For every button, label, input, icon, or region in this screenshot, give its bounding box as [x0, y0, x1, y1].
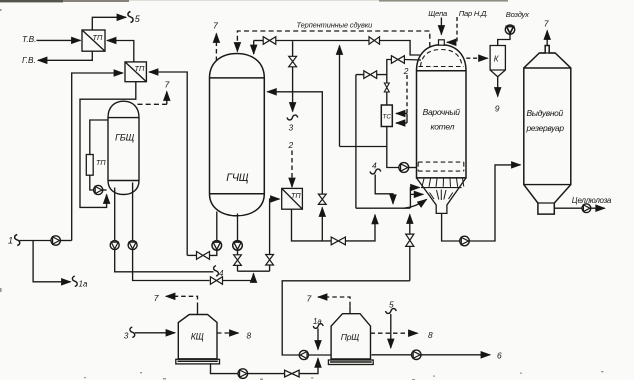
wire arrow up into valve VC1 [321, 208, 323, 241]
wire valve V4 to junction J arrow [223, 273, 254, 280]
dashed sensing line node 2 [396, 66, 409, 123]
wire node 3 drop with valve [287, 41, 298, 132]
svg-text:ТП: ТП [291, 191, 301, 200]
blow tank vessel [524, 46, 571, 215]
compressor [505, 25, 514, 34]
svg-text:1а: 1а [79, 280, 88, 289]
pump P2 [128, 241, 137, 250]
wire blow tank vent to node 7 [544, 19, 550, 46]
wire cyclone outlet to node 9 [495, 77, 500, 114]
big loop wire riser to PrSh leg [282, 281, 410, 355]
wire blow line boiler to blow tank [442, 213, 460, 241]
heater TP3 [86, 155, 106, 176]
wire TP4 bottom line [292, 209, 332, 241]
svg-text:ТП: ТП [93, 33, 104, 42]
wire GChSh outlet to pump P3 [216, 212, 218, 241]
svg-text:2: 2 [403, 66, 409, 76]
dashed wire GChSh dome to node 7 [213, 21, 219, 62]
dashed relief line to cyclone K [466, 57, 487, 59]
label Shchepa with arrow [428, 9, 447, 35]
tank PrSh [328, 306, 373, 364]
wire valve VK up into junction [299, 358, 318, 373]
boiler internal dashed screens [418, 50, 464, 172]
pump KSh [238, 369, 248, 379]
pump blow [460, 236, 470, 246]
wire pump KSh to valve VK [248, 373, 285, 375]
wire branch to node 1a [33, 241, 88, 289]
pump 6 [412, 350, 421, 359]
svg-text:ТС: ТС [383, 113, 392, 120]
svg-text:Т.В.: Т.В. [22, 34, 36, 44]
node 5 drop [386, 300, 397, 349]
svg-text:7: 7 [544, 19, 550, 29]
wire steam riser to header [355, 75, 357, 209]
pump P4 [233, 241, 243, 251]
dashed wire node 2 into TP4 [288, 140, 294, 187]
svg-text:2: 2 [288, 140, 294, 150]
node 3 input to KSh [124, 327, 175, 340]
wire pulp outlet [554, 196, 612, 213]
valve VK [285, 370, 300, 377]
wire PrSh outlet to node 6 [372, 354, 412, 356]
node 1a arrow into junction [313, 317, 323, 350]
wire pump GB to vessel bottom [103, 189, 107, 191]
heat exchanger TP2 [125, 62, 146, 82]
wire pump to boiler [409, 167, 417, 169]
wire steam branch with valve to TC line [356, 71, 387, 79]
svg-text:ПрЩ: ПрЩ [341, 332, 359, 342]
svg-text:ГЧЩ: ГЧЩ [226, 172, 248, 184]
svg-text:7: 7 [213, 21, 219, 31]
svg-text:3: 3 [124, 330, 129, 340]
wire riser from loop with valve VR [406, 215, 414, 281]
pump circulation [399, 163, 409, 173]
pump GB [94, 185, 103, 194]
heat exchanger TP4 [282, 188, 303, 209]
boiler vessel Varochny kotel [417, 45, 467, 178]
wire TP3 to pump GB [90, 175, 94, 190]
arrow into cyclone [484, 57, 488, 59]
wire tie line to TC drop [340, 146, 387, 148]
wire blow to tank left [469, 165, 520, 241]
pump P1 [110, 241, 119, 250]
wire valve VC2 to riser into header [345, 215, 375, 241]
wire GChSh right side feed [267, 92, 322, 194]
wire compressor to cyclone top [498, 34, 510, 45]
wire TC to circulation pump [387, 127, 399, 168]
wire P3 riser into TP2 right [149, 72, 187, 255]
wire header curve into cone [404, 199, 427, 208]
solid blowoff header [254, 41, 420, 56]
node 1 input [8, 235, 51, 246]
dashed steam line Par N.D. [447, 9, 488, 42]
svg-text:ГБЩ: ГБЩ [115, 132, 135, 143]
tank KSh [176, 307, 220, 364]
valve VB2 [369, 37, 380, 44]
wire GChSh outlet to pump P4 [237, 214, 239, 241]
vessel GChSh [210, 54, 265, 216]
svg-text:7: 7 [165, 80, 171, 90]
dashed wire KSh vent to node 7 [154, 293, 198, 307]
cyclone K [490, 46, 505, 77]
wire HX2 top to TP1 right input [107, 41, 134, 62]
svg-text:Терпентинные сдувки: Терпентинные сдувки [297, 20, 373, 29]
valve VB1 [263, 37, 276, 45]
wire GBSh left side to heater TP3 [90, 120, 108, 155]
svg-text:1а: 1а [313, 317, 322, 326]
scan artifact top bar [0, 0, 508, 2]
boiler bottom cone with strainer [417, 178, 467, 214]
node J junction segment [238, 270, 270, 272]
wire left riser into TP2 left [72, 73, 123, 241]
svg-text:ТП: ТП [135, 64, 146, 73]
svg-text:Варочный: Варочный [423, 107, 461, 117]
svg-text:ТП: ТП [96, 158, 106, 167]
svg-text:6: 6 [497, 351, 502, 361]
valve VP3 [197, 252, 210, 260]
wire P2 through valve V4 to junction J [133, 250, 210, 281]
wire to node 6 [421, 351, 502, 361]
dashed wire KSh to node 8 [217, 331, 252, 341]
valve VC2 [331, 237, 345, 245]
wire header branch arrows into cone [410, 188, 419, 209]
wire GBSh outlet to pump P1 [114, 188, 116, 241]
dashed wire PrSh to node 8 [371, 330, 434, 340]
svg-text:Воздух: Воздух [506, 10, 530, 19]
svg-text:Выдувной: Выдувной [527, 108, 564, 118]
wire valve VP3 to riser corner [187, 254, 196, 256]
svg-text:9: 9 [495, 104, 500, 114]
steam valve line into boiler [384, 56, 421, 105]
dashed header terpentine blowoffs [237, 20, 429, 51]
svg-text:резервуар: резервуар [526, 123, 565, 133]
wire P4 through valve VP4 to junction J [234, 250, 242, 271]
node 4 boiler feed [370, 161, 393, 204]
svg-text:1: 1 [8, 236, 13, 246]
wire TP1 bottom to G.V. [22, 51, 92, 65]
wire blowoff tie line [339, 46, 341, 147]
heat exchanger TP1 [82, 30, 105, 51]
wire T.V. into TP1 [22, 34, 81, 44]
pump N1 [51, 236, 60, 245]
wire pump N1 to left riser [60, 240, 71, 242]
valve VJ right [266, 255, 274, 272]
wire P3 through valve VP3 to HX riser [210, 250, 217, 255]
pump PrSh loop [299, 350, 308, 359]
svg-text:Пар Н.Д.: Пар Н.Д. [459, 9, 488, 18]
wire bottom header [356, 207, 410, 209]
temperature controller TC [381, 105, 392, 127]
svg-text:3: 3 [289, 123, 294, 133]
valve VC1 [318, 194, 326, 204]
svg-text:КЩ: КЩ [191, 332, 204, 342]
svg-text:Г.В.: Г.В. [22, 55, 36, 65]
svg-text:котел: котел [431, 121, 455, 131]
wire pump to PrSh tank [309, 354, 332, 356]
svg-text:7: 7 [307, 294, 313, 304]
boiler nozzle [439, 40, 445, 45]
wire GBSh outlet to pump P2 [132, 183, 134, 241]
dashed wire GBSh dome to node 7 [138, 80, 171, 105]
wire KSh bottom outlet [211, 363, 239, 373]
wire TP2 bottom to GBSh bottom loop [80, 82, 136, 208]
wire P1 to node 4 [115, 250, 224, 278]
svg-text:8: 8 [247, 331, 252, 341]
svg-text:Щепа: Щепа [428, 9, 447, 18]
valve V4 [210, 277, 222, 285]
svg-text:Целлюлоза: Целлюлоза [572, 196, 612, 205]
wire from junction J up into TP4 left [270, 199, 280, 255]
svg-text:7: 7 [154, 293, 160, 303]
dashed wire PrSh vent to node 7 [307, 294, 351, 307]
vessel GBSh [108, 101, 139, 194]
wire TP1 top to node 5 [92, 12, 141, 31]
svg-text:5: 5 [135, 14, 141, 24]
svg-text:8: 8 [428, 330, 433, 340]
pump P3 [212, 241, 222, 251]
